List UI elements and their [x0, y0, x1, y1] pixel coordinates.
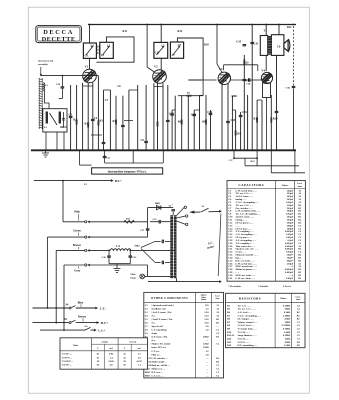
- resistor R2: [76, 120, 78, 125]
- node: [205, 149, 207, 151]
- wire: [70, 85, 72, 150]
- wire: [177, 221, 186, 224]
- node junction: [146, 24, 148, 26]
- svg-text:Screen: Screen: [129, 340, 137, 343]
- svg-text:C34: C34: [236, 41, 241, 44]
- wire: [223, 65, 225, 71]
- svg-text:C20: C20: [56, 83, 61, 86]
- wire HT feed: [34, 180, 112, 182]
- resistor R9: [235, 131, 237, 136]
- wire: [276, 55, 278, 150]
- svg-text:DECETTE: DECETTE: [42, 36, 76, 43]
- svg-text:C15: C15: [231, 119, 236, 122]
- wire: [40, 329, 85, 331]
- capacitor C32: [171, 209, 175, 211]
- wire diagonal: [262, 75, 267, 80]
- wire: [247, 95, 249, 150]
- wire: [137, 85, 139, 150]
- wire: [235, 110, 237, 150]
- wire: [79, 150, 81, 165]
- node: [167, 149, 169, 151]
- wire: [55, 250, 57, 322]
- wire L1 to coil box: [44, 91, 49, 109]
- wire diagonal to V3 grid: [217, 64, 222, 73]
- svg-text:tions: tions: [216, 298, 220, 300]
- wire: [227, 83, 229, 150]
- switch S5: [71, 320, 76, 322]
- node: [137, 149, 139, 151]
- wire: [165, 240, 170, 242]
- svg-text:C36: C36: [286, 86, 291, 89]
- svg-text:V1: V1: [85, 65, 89, 69]
- svg-text:H.T. smoothing ... ..: H.T. smoothing ... ..: [238, 344, 259, 347]
- wire: [240, 112, 242, 150]
- wire: [46, 237, 48, 308]
- wire grid loop 2: [177, 38, 203, 80]
- node: [193, 149, 195, 151]
- wire: [153, 83, 155, 150]
- svg-text:MR1: MR1: [232, 95, 238, 98]
- wire: [194, 109, 199, 111]
- node junction: [251, 24, 253, 26]
- IF transformer L4/C9: [83, 43, 96, 58]
- wire: [154, 86, 163, 88]
- arrow HT+: [97, 321, 100, 324]
- svg-text:C10: C10: [155, 51, 160, 54]
- resistor R4: [115, 120, 117, 125]
- wire: [128, 90, 130, 150]
- wire: [63, 265, 65, 330]
- wire: [177, 216, 186, 218]
- wire: [205, 95, 207, 150]
- svg-text:Green: Green: [73, 229, 81, 232]
- svg-text:R14: R14: [178, 30, 183, 33]
- svg-text:RESISTORS: RESISTORS: [239, 296, 261, 300]
- node junction: [293, 24, 295, 26]
- capacitor C34: [243, 78, 247, 80]
- svg-text:‡ Preset.: ‡ Preset.: [283, 286, 292, 288]
- wire: [90, 249, 111, 251]
- node: [235, 149, 237, 151]
- wire: [200, 94, 204, 96]
- svg-text:C34: C34: [246, 80, 251, 83]
- svg-text:V1 X17 ...: V1 X17 ...: [62, 353, 72, 356]
- svg-text:tions: tions: [298, 186, 302, 188]
- svg-text:C16: C16: [242, 111, 247, 114]
- wire: [145, 275, 177, 277]
- capacitors table: [227, 181, 305, 282]
- wire: [234, 157, 257, 159]
- wire HT+ top bus: [88, 24, 296, 26]
- capacitor C19: [275, 110, 279, 112]
- wire: [92, 83, 94, 151]
- svg-text:R19: R19: [273, 118, 278, 121]
- capacitor C31: [129, 250, 131, 263]
- resistor R5: [187, 95, 192, 97]
- capacitor C14: [209, 112, 213, 114]
- wire: [33, 322, 69, 324]
- wire: [62, 181, 64, 222]
- resistor R25: [124, 220, 134, 223]
- wire: [162, 83, 164, 150]
- capacitor C6: [144, 140, 148, 142]
- svg-text:Anode: Anode: [101, 340, 108, 343]
- svg-text:OTHER COMPONENTS: OTHER COMPONENTS: [151, 297, 188, 300]
- wire: [80, 164, 92, 166]
- wire: [181, 96, 183, 151]
- wire diagonal: [141, 241, 155, 247]
- wire: [131, 249, 176, 251]
- node: [82, 149, 84, 151]
- wire diagonal to V2 grid: [147, 67, 155, 73]
- capacitor C34b: [243, 44, 247, 46]
- wire: [244, 158, 246, 166]
- svg-text:V4 N17 ...: V4 N17 ...: [62, 364, 72, 367]
- resistor R19: [270, 118, 272, 123]
- wire: [233, 150, 235, 158]
- wire: [63, 221, 85, 223]
- wire: [56, 249, 84, 251]
- node: [181, 149, 183, 151]
- capacitor C11: [166, 119, 170, 121]
- wire: [265, 55, 267, 71]
- svg-text:lamp: lamp: [131, 277, 137, 280]
- IF transformer C10/L5: [154, 42, 168, 58]
- node: [153, 149, 155, 151]
- node: [103, 149, 105, 151]
- svg-text:L.T. rect. ...: L.T. rect. ...: [152, 374, 164, 377]
- ground symbol: [114, 264, 121, 273]
- svg-text:MR2: MR2: [135, 244, 141, 247]
- capacitor C18: [230, 79, 249, 81]
- wire: [271, 172, 305, 174]
- svg-text:Blue: Blue: [78, 302, 84, 305]
- wire: [76, 85, 78, 150]
- svg-text:R18: R18: [204, 44, 209, 47]
- loudspeaker L8: [284, 40, 288, 51]
- svg-text:CAPACITORS: CAPACITORS: [238, 183, 264, 187]
- svg-text:V3 ZD17 ...: V3 ZD17 ...: [62, 360, 74, 363]
- capacitor C7: [121, 124, 125, 126]
- wire: [171, 110, 173, 150]
- arrow mains top: [219, 210, 222, 213]
- wire: [60, 126, 67, 128]
- wire: [129, 89, 138, 91]
- wire grid V3: [203, 79, 216, 81]
- node: [70, 149, 72, 151]
- wire: [216, 25, 218, 65]
- wire: [89, 25, 91, 44]
- wire: [109, 90, 111, 150]
- wire: [63, 132, 65, 150]
- resistors table: [226, 293, 306, 347]
- coil unit box L2: [43, 109, 67, 132]
- wire: [187, 96, 189, 151]
- node: [221, 149, 223, 151]
- svg-text:Brown: Brown: [73, 244, 81, 247]
- wire screen feed: [178, 95, 203, 97]
- capacitor C3: [69, 115, 73, 117]
- wire: [261, 100, 263, 150]
- node: [128, 149, 130, 151]
- wire: [171, 207, 174, 209]
- wire coupling: [224, 64, 258, 66]
- wire: [132, 150, 134, 163]
- capacitor C36 dashed feed: [293, 26, 295, 86]
- node: [63, 149, 65, 151]
- node: [293, 149, 295, 151]
- wire: [221, 83, 223, 150]
- page border frame: [28, 7, 309, 393]
- node junction: [89, 24, 91, 26]
- wire: [82, 83, 84, 151]
- wire: [97, 76, 99, 151]
- wire grid loop: [96, 37, 134, 62]
- svg-text:† Variable.: † Variable.: [258, 286, 269, 288]
- resistor R7: [157, 122, 159, 127]
- choke L9: [110, 249, 131, 251]
- resistor R1: [87, 123, 89, 128]
- ground chassis symbol: [42, 150, 49, 157]
- node: [115, 149, 117, 151]
- wire: [146, 25, 148, 68]
- wire: [89, 58, 91, 69]
- svg-text:R21: R21: [287, 26, 292, 29]
- capacitor C20: [61, 76, 63, 87]
- arrow LT-: [95, 307, 98, 310]
- label leader: [78, 232, 80, 236]
- resistor R8: [205, 120, 207, 125]
- wire: [199, 95, 201, 150]
- label leader: [78, 266, 80, 268]
- wire: [83, 85, 93, 87]
- svg-text:R12: R12: [254, 118, 259, 121]
- svg-text:Intermediate frequency 470 k: Intermediate frequency 470 kc/s.: [108, 171, 147, 174]
- svg-text:C12: C12: [169, 113, 174, 116]
- wire: [147, 265, 149, 276]
- wire: [103, 90, 105, 150]
- node: [62, 180, 64, 182]
- node junction: [160, 24, 162, 26]
- label leader: [78, 214, 80, 221]
- node: [56, 149, 58, 151]
- wire: [210, 110, 212, 150]
- wire: [47, 236, 84, 238]
- aerial down arrow: [40, 67, 42, 75]
- node: [266, 149, 268, 151]
- svg-text:H.T.+: H.T.+: [101, 321, 109, 325]
- wire: [157, 83, 159, 150]
- svg-text:mA: mA: [109, 347, 113, 350]
- wire: [243, 55, 245, 150]
- svg-text:V4: V4: [261, 68, 265, 72]
- switch S6: [85, 327, 91, 330]
- wire: [160, 58, 162, 70]
- resistor R20: [243, 60, 245, 65]
- wire: [232, 109, 235, 111]
- resistor R3: [98, 121, 100, 126]
- resistor R12: [256, 118, 258, 123]
- capacitor C30: [108, 250, 110, 263]
- svg-text:0.035: 0.035: [109, 360, 115, 363]
- wire: [294, 150, 296, 173]
- valve V3: [218, 67, 230, 85]
- capacitor C16: [239, 114, 243, 116]
- capacitor C22: [103, 155, 107, 157]
- valve voltage table: [60, 338, 148, 369]
- capacitor C13: [192, 113, 196, 115]
- svg-text:H.T.+: H.T.+: [115, 179, 122, 183]
- capacitor C12: [170, 113, 174, 115]
- wire: [278, 25, 280, 35]
- capacitor C15: [226, 120, 230, 122]
- wire: [172, 109, 175, 111]
- wire: [176, 278, 178, 281]
- capacitor C27: [147, 228, 149, 230]
- intermediate frequency label: [92, 168, 163, 174]
- arrow HT+: [111, 179, 114, 182]
- node: [92, 149, 94, 151]
- wire: [91, 134, 102, 136]
- wire: [104, 89, 111, 91]
- svg-text:C14: C14: [207, 111, 212, 114]
- wire: [33, 307, 69, 309]
- svg-text:L.W. osc. trim. ... ..: L.W. osc. trim. ... ..: [236, 277, 256, 280]
- wire: [122, 96, 124, 151]
- arrow mains: [219, 280, 222, 283]
- wire: [105, 162, 164, 164]
- IF transformer L7/C8: [170, 42, 183, 58]
- svg-text:Valve: Valve: [73, 344, 80, 347]
- wire: [56, 132, 58, 150]
- coil L1: [43, 83, 45, 91]
- wire: [148, 207, 171, 209]
- wire mains bottom: [148, 281, 220, 283]
- svg-text:R20: R20: [244, 61, 249, 64]
- wire: [174, 96, 176, 151]
- svg-text:V2 W17 ...: V2 W17 ...: [62, 356, 73, 359]
- wire: [64, 264, 85, 266]
- wire: [256, 150, 258, 166]
- wire: [245, 165, 299, 167]
- arrow LS+: [94, 329, 97, 332]
- A.C. mains lead: [218, 214, 221, 277]
- resistor/condenser block V4 cathode: [263, 83, 271, 98]
- svg-text:C13: C13: [191, 114, 196, 117]
- wire: [45, 132, 47, 150]
- wire: [104, 150, 106, 163]
- svg-text:* Electrolytic.: * Electrolytic.: [228, 286, 242, 288]
- wire: [90, 264, 148, 266]
- wire: [231, 96, 233, 150]
- wire: [147, 208, 149, 238]
- svg-text:assembly: assembly: [38, 63, 48, 66]
- wire: [87, 83, 89, 151]
- svg-text:(ohms): (ohms): [201, 298, 207, 301]
- svg-text:mA: mA: [138, 347, 142, 350]
- node: [251, 149, 253, 151]
- node junction: [216, 24, 218, 26]
- svg-text:L.9: L.9: [116, 245, 120, 248]
- wire: [165, 261, 170, 263]
- wire: [160, 25, 162, 43]
- wire: [202, 80, 204, 96]
- title box DECCA DECETTE: [36, 26, 82, 44]
- node junction: [265, 24, 267, 26]
- svg-text:Pink: Pink: [74, 211, 80, 214]
- svg-text:DECCA: DECCA: [43, 29, 74, 36]
- mains transformer T2: [170, 215, 173, 278]
- wire: [167, 85, 169, 150]
- wire: [172, 212, 174, 215]
- wire: [257, 99, 262, 101]
- svg-text:0.01μF: 0.01μF: [286, 277, 294, 280]
- svg-text:Grey: Grey: [74, 270, 81, 273]
- output transformer T1: [260, 36, 267, 56]
- ferrite rod aerial L1: [39, 78, 43, 129]
- wire aerial top: [41, 75, 99, 77]
- wire: [124, 120, 133, 122]
- wire: [90, 236, 148, 238]
- svg-text:MR3: MR3: [145, 374, 151, 377]
- wire: [209, 210, 220, 212]
- node: [278, 149, 280, 151]
- wire: [109, 263, 130, 265]
- capacitor C33: [159, 221, 161, 223]
- resistor R6: [181, 120, 183, 125]
- wire: [256, 100, 258, 150]
- svg-text:Brown: Brown: [78, 316, 86, 319]
- valve V4: [261, 68, 272, 83]
- svg-text:C35: C35: [254, 43, 259, 46]
- wire: [177, 207, 185, 215]
- wire: [194, 211, 200, 213]
- wire: [266, 98, 268, 151]
- svg-text:tions: tions: [296, 299, 300, 301]
- wire: [76, 322, 97, 324]
- wire: [251, 25, 253, 151]
- capacitor C5a: [102, 141, 106, 143]
- valve V1: [83, 65, 97, 83]
- node junction: [278, 24, 280, 26]
- label leader: [78, 247, 80, 249]
- capacitor C4: [91, 118, 95, 120]
- wire chassis bus: [31, 149, 296, 151]
- wire: [150, 221, 170, 223]
- wire: [115, 96, 117, 151]
- wire diagonal: [141, 249, 155, 263]
- svg-text:L.T.-: L.T.-: [100, 306, 106, 310]
- svg-text:V2: V2: [154, 65, 158, 69]
- wire: [162, 150, 164, 163]
- capacitor C35: [250, 41, 254, 43]
- svg-text:R11: R11: [123, 30, 128, 33]
- wire: [193, 110, 195, 150]
- rectifier MR1: [157, 205, 161, 209]
- wire: [145, 85, 147, 150]
- svg-text:C18: C18: [246, 82, 251, 85]
- IF transformer L3/C5: [100, 42, 114, 58]
- wire: [270, 150, 272, 173]
- wire: [91, 329, 95, 331]
- switch S4: [71, 306, 76, 308]
- svg-text:0.017: 0.017: [137, 360, 143, 363]
- switch S1: [189, 211, 194, 214]
- svg-text:1.5kΩ: 1.5kΩ: [284, 344, 290, 347]
- wire: [90, 221, 148, 223]
- other components table: [144, 292, 224, 378]
- wire: [257, 65, 259, 71]
